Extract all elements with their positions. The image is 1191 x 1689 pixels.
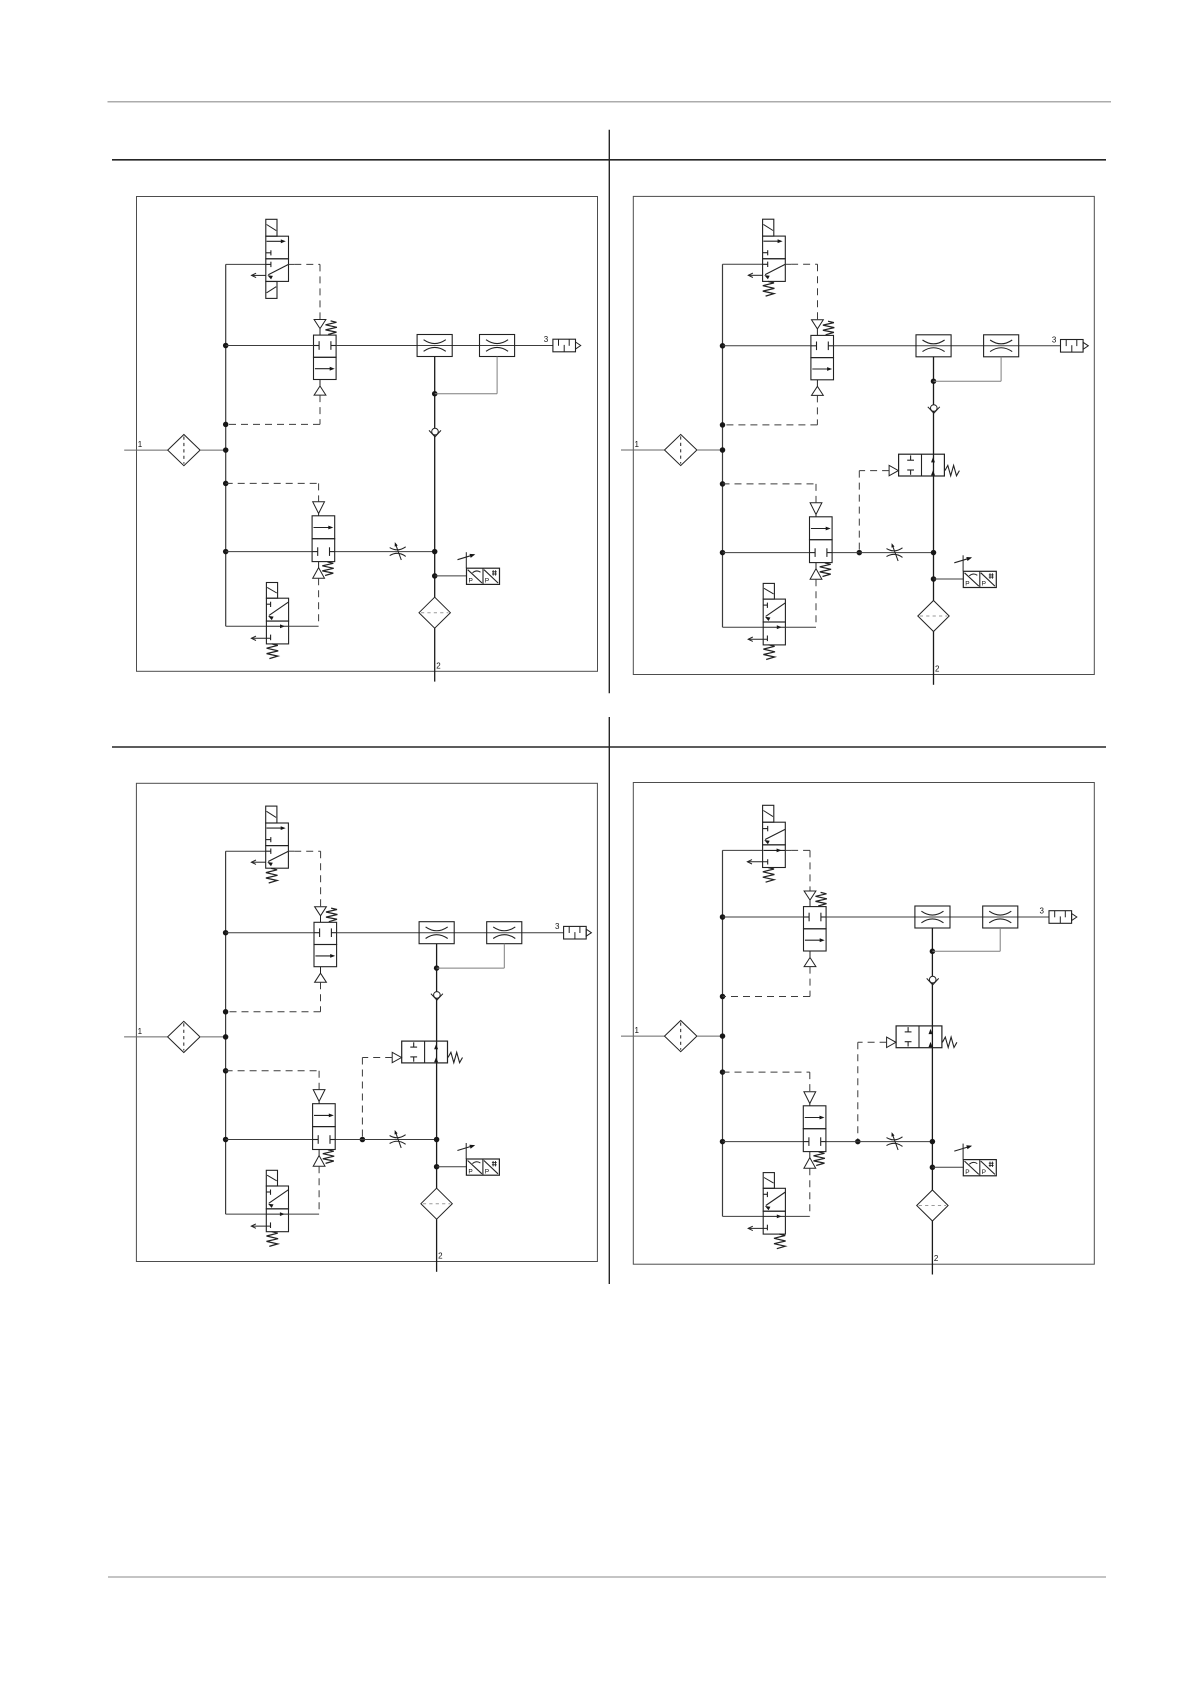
BR pilot line bus to V3: [723, 1071, 810, 1073]
BR wire to pressure switch: [932, 1166, 963, 1168]
BL bus junction node w1: [223, 930, 229, 936]
TR bus junction node w2: [720, 550, 726, 556]
BR pilot line V5 to lower wire: [858, 1041, 887, 1043]
BR bus junction node d1: [720, 994, 726, 1000]
BR pilot line V2 to bus: [809, 967, 811, 997]
BL wire F1 to bus: [200, 1036, 226, 1038]
BR shut-off valve V5 (2/2 pilot): [896, 1026, 942, 1048]
TR pilot line V2 to bus: [816, 395, 818, 425]
BR bus junction node w2: [720, 1139, 726, 1145]
TR shut-off valve V5 (2/2 pilot): [899, 454, 945, 476]
svg-text:P: P: [469, 578, 473, 585]
BL junction node lower: [434, 1137, 440, 1143]
TR wire V4 flow path: [763, 626, 785, 628]
TR junction node lower: [931, 550, 937, 556]
BL bus junction node p1: [223, 1034, 229, 1040]
TL circuit frame: [137, 197, 598, 672]
svg-text:3: 3: [1040, 907, 1045, 916]
BR outlet filter F2: [917, 1190, 948, 1221]
BR lower wire V3 to vertical: [826, 1141, 933, 1143]
TL branch wire FC2: [435, 393, 497, 395]
BR junction node pilot V5: [855, 1139, 861, 1145]
TL wire V4 to pilot column: [289, 625, 319, 627]
TR pilot valve V3 (3/2 pneumatic, spring return): [810, 517, 833, 540]
BR check valve: [927, 978, 939, 984]
BR pressure switch PE: [963, 1160, 996, 1176]
TR bus junction node w1: [720, 343, 726, 349]
TL junction node FC: [432, 391, 438, 397]
TL lower wire bus to V3: [226, 551, 312, 553]
BR lower wire bus to V3: [723, 1141, 804, 1143]
TR bus junction node d1: [720, 422, 726, 428]
svg-text:P: P: [485, 1168, 489, 1175]
TR junction node FC: [931, 378, 937, 384]
BL main wire V2 to flow controls: [337, 932, 564, 934]
TL flow control FC2: [480, 335, 515, 357]
TR pressure switch PE: [963, 571, 996, 587]
TL wire bus to valve V1: [226, 263, 266, 265]
BL circuit frame: [136, 783, 597, 1261]
TL bus junction node w1: [223, 343, 229, 349]
TR flow control FC2: [984, 335, 1019, 357]
BL bus junction node d2: [223, 1068, 229, 1074]
TL main wire V2 to flow controls: [336, 345, 553, 347]
BL wire bus to valve V4: [226, 1213, 267, 1215]
TL pilot valve V2 (3/2 pneumatic, spring return): [314, 335, 337, 357]
TR check valve: [928, 407, 940, 413]
BL pilot line bus to V3: [226, 1070, 320, 1072]
BR pilot valve V2 (3/2 pneumatic, spring return): [804, 907, 827, 929]
TL port 2 wire: [434, 628, 436, 681]
svg-text:1: 1: [138, 440, 143, 449]
BR wire V4 to pilot column: [785, 1215, 809, 1217]
svg-text:3: 3: [1052, 335, 1057, 344]
BL shut-off valve V5 (2/2 pilot): [402, 1041, 448, 1063]
BL supply bus wire: [225, 851, 227, 1214]
TL bus junction node d1: [223, 422, 229, 428]
TL check valve: [429, 430, 441, 436]
BL pressure switch PE: [466, 1159, 499, 1175]
BR valve V4 (3/2 hand valve, spring return): [763, 1188, 785, 1211]
BR bus junction node p1: [720, 1033, 726, 1039]
BL main wire bus to V2: [226, 932, 314, 934]
BR branch wire FC2: [932, 950, 1000, 952]
svg-text:1: 1: [635, 440, 640, 449]
BL lower wire bus to V3: [226, 1139, 313, 1141]
BL outlet filter F2: [421, 1188, 452, 1219]
svg-text:3: 3: [544, 335, 549, 344]
BR main wire bus to V2: [723, 916, 804, 918]
TR wire to pressure switch: [934, 578, 964, 580]
TR bus junction node p1: [720, 447, 726, 453]
BR junction node PS: [930, 1165, 936, 1171]
BL pilot line V2 to bus: [320, 982, 322, 1012]
TR port 1 wire: [621, 449, 665, 451]
TL inlet filter F1: [168, 435, 200, 466]
TL main wire bus to V2: [226, 345, 314, 347]
svg-text:2: 2: [436, 661, 441, 670]
TL wire F1 to bus: [200, 449, 226, 451]
BL valve V1 (3/2 hand valve): [266, 823, 289, 846]
page bottom rule: [108, 1576, 1106, 1578]
BR adjustable throttle: [887, 1137, 903, 1140]
TR silencer at port 3: [1061, 340, 1084, 353]
BL pilot valve V3 (3/2 pneumatic, spring return): [313, 1104, 336, 1127]
BL main vertical wire: [436, 944, 438, 1188]
TL silencer at port 3: [553, 339, 576, 352]
TR junction node pilot V5: [857, 550, 863, 556]
svg-text:P: P: [468, 1168, 472, 1175]
TL pilot line V1 to V2: [289, 263, 295, 265]
TR bus junction node d2: [720, 481, 726, 487]
TL pilot line V2 to bus: [319, 395, 321, 424]
svg-text:P: P: [982, 581, 986, 588]
BL flow control FC1: [419, 922, 454, 944]
TR wire V4 to pilot column: [785, 626, 816, 628]
BL check valve: [431, 994, 443, 1000]
BL inlet filter F1: [168, 1021, 200, 1052]
BL bus junction node w2: [223, 1137, 229, 1143]
svg-text:1: 1: [635, 1026, 640, 1035]
BR flow control FC1: [915, 906, 950, 928]
BL junction node pilot V5: [360, 1137, 366, 1143]
TR main wire V2 to flow controls: [834, 345, 1061, 347]
TR pilot line bus to V3: [723, 483, 817, 485]
BL port 2 wire: [436, 1219, 438, 1272]
column divider lower: [608, 717, 610, 1284]
TR junction node PS: [931, 576, 937, 582]
TR port 2 wire: [933, 632, 935, 685]
BR junction node lower: [930, 1139, 936, 1145]
BL branch wire FC2: [437, 967, 505, 969]
BR main vertical wire: [931, 928, 933, 1190]
header rule: [112, 159, 1106, 161]
TL outlet filter F2: [419, 597, 450, 628]
BR port 1 wire: [621, 1035, 665, 1037]
BR flow control FC2: [983, 906, 1018, 928]
BL pilot line V3 to V4: [318, 1166, 320, 1214]
BL bus junction node d1: [223, 1009, 229, 1015]
TR inlet filter F1: [665, 434, 697, 465]
BL wire V4 to pilot column: [289, 1213, 320, 1215]
TL bus junction node p1: [223, 447, 229, 453]
TR wire bus to valve V1: [723, 263, 763, 265]
TL bus junction node w2: [223, 549, 229, 555]
TR main vertical wire: [933, 357, 935, 601]
TR valve V4 (3/2 hand valve, spring return): [763, 599, 785, 622]
TR flow control FC1: [916, 335, 951, 357]
TR supply bus wire: [722, 264, 724, 627]
TR wire F1 to bus: [697, 449, 723, 451]
TL pilot line V3 to V4: [318, 578, 320, 626]
TR lower wire bus to V3: [723, 552, 810, 554]
TR lower wire V3 to vertical: [832, 552, 933, 554]
TR pilot valve V2 (3/2 pneumatic, spring return): [811, 335, 834, 357]
TR pilot line V5 to lower wire: [859, 470, 889, 472]
row divider rule: [112, 746, 1106, 748]
BL lower wire V3 to vertical: [335, 1139, 436, 1141]
BR pilot line V1 to V2: [785, 849, 791, 851]
TL bus junction node d2: [223, 481, 229, 487]
TR outlet filter F2: [918, 601, 949, 632]
BL wire bus to valve V1: [226, 850, 266, 852]
svg-text:2: 2: [934, 1254, 939, 1263]
TR adjustable throttle: [887, 548, 903, 551]
TL adjustable throttle: [390, 547, 406, 550]
BL junction node PS: [434, 1164, 440, 1170]
BL pilot line V5 to lower wire: [362, 1057, 392, 1059]
BR wire bus to valve V4: [723, 1215, 764, 1217]
TR main wire bus to V2: [723, 345, 811, 347]
BL valve V4 (3/2 hand valve, spring return): [266, 1186, 288, 1209]
TR pilot line V3 to V4: [815, 579, 817, 627]
BL wire to pressure switch: [437, 1166, 467, 1168]
svg-text:1: 1: [138, 1027, 143, 1036]
BR wire F1 to bus: [697, 1035, 723, 1037]
TL wire bus to valve V4: [226, 625, 267, 627]
TL main vertical wire: [434, 357, 436, 598]
BR wire bus to valve V1: [723, 849, 763, 851]
BR valve V1 (3/2 hand valve): [763, 822, 786, 845]
BR junction node FC: [930, 949, 936, 955]
BL pilot valve V2 (3/2 pneumatic, spring return): [314, 922, 337, 944]
svg-text:P: P: [485, 578, 489, 585]
TL junction node PS: [432, 573, 438, 579]
TL wire to pressure switch: [435, 575, 467, 577]
BL adjustable throttle: [390, 1135, 406, 1138]
BR inlet filter F1: [665, 1021, 697, 1052]
TL lower wire V3 to vertical: [335, 551, 435, 553]
BL flow control FC2: [487, 922, 522, 944]
BR main wire V2 to flow controls: [826, 916, 1049, 918]
BR bus junction node d2: [720, 1069, 726, 1075]
svg-text:P: P: [965, 1169, 969, 1176]
TL valve V4 (3/2 hand valve, spring return): [266, 598, 288, 621]
TL wire V4 flow path: [266, 625, 288, 627]
TR branch wire FC2: [934, 380, 1002, 382]
TR circuit frame: [633, 196, 1094, 674]
page top rule: [108, 101, 1112, 103]
BR silencer at port 3: [1049, 911, 1072, 924]
BR pilot line V3 to V4: [809, 1168, 811, 1216]
svg-text:P: P: [965, 581, 969, 588]
svg-text:P: P: [982, 1169, 986, 1176]
BR supply bus wire: [722, 850, 724, 1216]
BR port 2 wire: [931, 1221, 933, 1275]
svg-text:2: 2: [438, 1252, 443, 1261]
svg-text:3: 3: [555, 922, 560, 931]
TL flow control FC1: [417, 335, 452, 357]
BR wire V4 flow path: [763, 1215, 785, 1217]
BR bus junction node w1: [720, 914, 726, 920]
BR pilot valve V3 (3/2 pneumatic, spring return): [803, 1106, 826, 1129]
TL pressure switch PE: [467, 568, 500, 584]
TL valve V1 (3/2 hand valve): [266, 236, 289, 259]
svg-text:2: 2: [935, 665, 940, 674]
TL pilot line bus to V3: [226, 482, 319, 484]
TL pilot valve V3 (3/2 pneumatic, spring return): [312, 516, 335, 539]
BL wire V4 flow path: [266, 1213, 288, 1215]
BR circuit frame: [633, 783, 1094, 1265]
BL pilot line V1 to V2: [288, 850, 294, 852]
BL port 1 wire: [124, 1036, 168, 1038]
TL port 1 wire: [124, 449, 168, 451]
BL silencer at port 3: [564, 926, 587, 939]
TR pilot line V1 to V2: [785, 263, 791, 265]
TR wire bus to valve V4: [723, 626, 764, 628]
TL junction node lower: [432, 549, 438, 555]
BL junction node FC: [434, 965, 440, 971]
TL supply bus wire: [225, 264, 227, 626]
column divider upper: [608, 130, 610, 694]
TR valve V1 (3/2 hand valve): [763, 236, 786, 259]
